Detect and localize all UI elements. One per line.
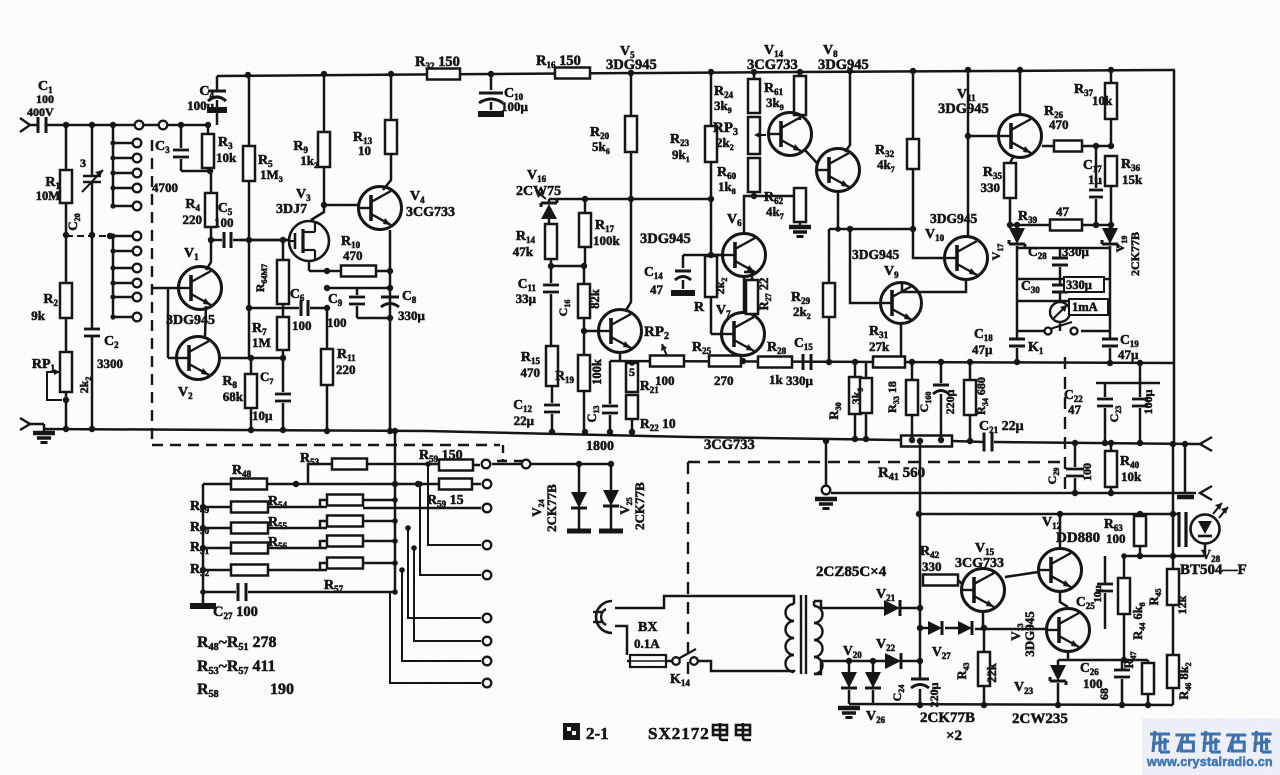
svg-text:×2: ×2 xyxy=(946,728,962,744)
svg-text:SX2172: SX2172 xyxy=(648,724,710,743)
svg-text:www.crystalradio.cn: www.crystalradio.cn xyxy=(1146,755,1273,769)
svg-text:2-1: 2-1 xyxy=(586,724,609,743)
